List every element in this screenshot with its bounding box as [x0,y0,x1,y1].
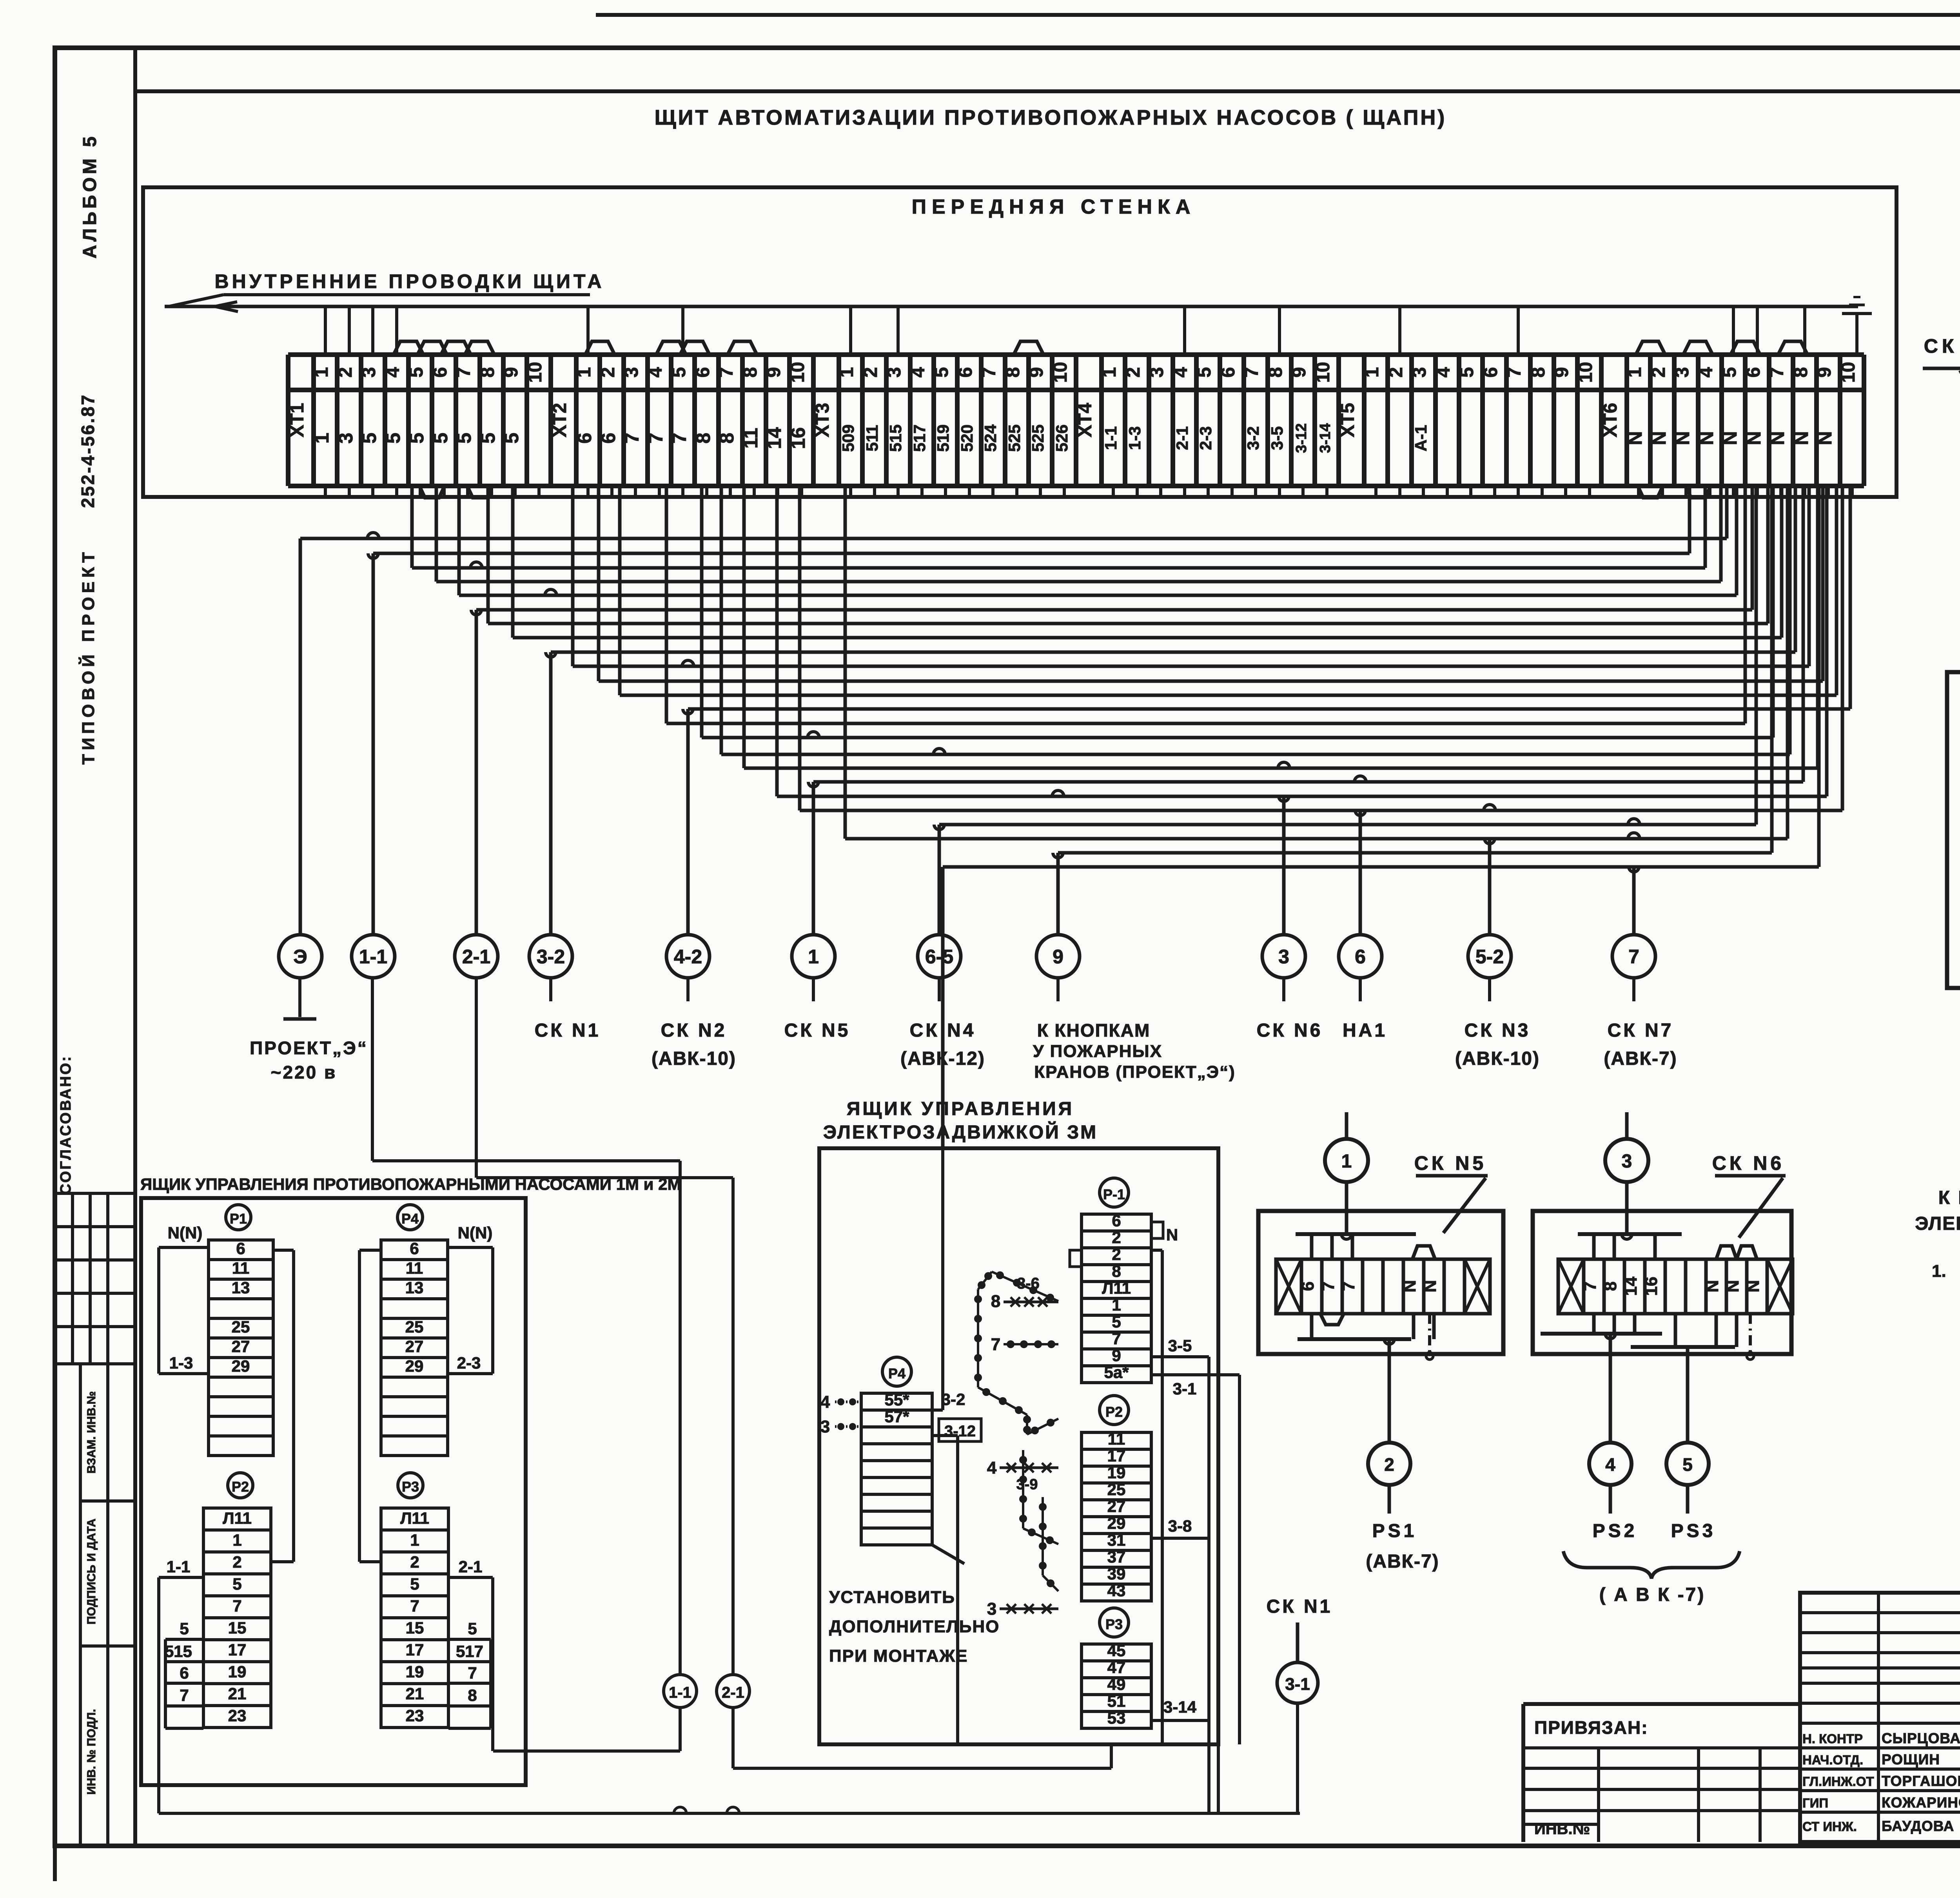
svg-text:17: 17 [228,1641,247,1659]
svg-text:5: 5 [931,367,952,378]
svg-text:ХТ3: ХТ3 [812,403,833,437]
svg-text:4-2: 4-2 [674,946,702,968]
svg-text:3-5: 3-5 [1168,1336,1192,1355]
svg-text:3: 3 [1622,1151,1632,1172]
svg-text:2: 2 [1648,367,1669,378]
svg-text:1: 1 [1112,1296,1121,1314]
svg-text:( А В К -7): ( А В К -7) [1599,1584,1706,1605]
svg-text:N: N [1766,431,1788,445]
svg-text:3-2: 3-2 [942,1390,965,1409]
svg-text:6: 6 [1355,946,1366,968]
svg-text:СК N2: СК N2 [661,1020,727,1041]
svg-text:ПОДПИСЬ И ДАТА: ПОДПИСЬ И ДАТА [85,1519,98,1624]
svg-text:1: 1 [1099,367,1120,378]
svg-text:2: 2 [410,1553,419,1571]
svg-text:ЭЛЕКТРОЗАДВИЖКОЙ ЗМ: ЭЛЕКТРОЗАДВИЖКОЙ ЗМ [823,1121,1098,1143]
svg-text:15: 15 [406,1619,424,1637]
svg-text:7: 7 [1581,1282,1600,1291]
svg-text:АЛЬБОМ 5: АЛЬБОМ 5 [80,133,100,258]
svg-text:10: 10 [788,362,808,383]
svg-text:3: 3 [987,1599,996,1619]
svg-text:ХТ6: ХТ6 [1600,403,1621,437]
svg-text:7: 7 [645,433,667,444]
svg-text:3: 3 [335,433,357,444]
svg-text:4: 4 [1696,367,1717,377]
svg-text:(АВК-12): (АВК-12) [900,1048,985,1069]
svg-text:СК N6: СК N6 [1712,1152,1784,1174]
svg-text:10: 10 [1313,362,1334,383]
svg-text:4: 4 [383,367,403,377]
svg-text:7: 7 [1112,1329,1121,1348]
svg-text:7: 7 [1339,1282,1358,1291]
svg-text:7: 7 [1767,367,1788,378]
svg-text:14: 14 [763,427,785,449]
svg-text:3-2: 3-2 [1244,426,1262,450]
svg-text:3: 3 [359,367,379,378]
svg-text:N: N [1671,431,1693,445]
svg-text:5: 5 [406,433,428,444]
svg-text:517: 517 [456,1642,483,1661]
svg-text:7: 7 [454,367,474,378]
svg-text:4: 4 [987,1458,997,1477]
svg-text:ВНУТРЕННИЕ ПРОВОДКИ ЩИТА: ВНУТРЕННИЕ ПРОВОДКИ ЩИТА [215,270,605,292]
svg-text:520: 520 [958,424,976,452]
svg-text:1-3: 1-3 [1125,426,1144,450]
svg-text:515: 515 [165,1642,192,1661]
svg-text:17: 17 [406,1641,424,1659]
svg-text:3: 3 [1409,367,1430,378]
svg-text:37: 37 [1107,1548,1126,1566]
svg-text:N: N [1421,1280,1440,1293]
svg-text:~220 в: ~220 в [271,1062,337,1082]
svg-text:8: 8 [1112,1262,1121,1280]
svg-text:Р1: Р1 [230,1211,247,1227]
svg-text:7: 7 [468,1664,477,1682]
svg-text:9: 9 [501,367,522,378]
svg-text:6: 6 [693,367,713,378]
svg-text:(АВК-10): (АВК-10) [1455,1048,1540,1069]
svg-text:5: 5 [1719,367,1740,378]
svg-text:N: N [1744,1280,1763,1293]
svg-text:ЯЩИК УПРАВЛЕНИЯ: ЯЩИК УПРАВЛЕНИЯ [847,1099,1074,1119]
svg-text:55*: 55* [884,1390,909,1409]
svg-text:8: 8 [716,433,738,444]
svg-text:10: 10 [1838,362,1859,383]
svg-text:8: 8 [1003,367,1024,378]
svg-text:3: 3 [1147,367,1167,378]
svg-text:ХТ2: ХТ2 [550,403,570,437]
svg-text:6: 6 [1743,367,1764,378]
svg-text:10: 10 [525,362,546,383]
svg-text:5: 5 [382,433,404,444]
svg-text:3-8: 3-8 [1168,1517,1192,1535]
svg-text:8: 8 [468,1686,477,1704]
svg-text:8: 8 [1601,1282,1620,1291]
svg-text:6: 6 [430,367,451,378]
svg-text:526: 526 [1053,424,1071,452]
svg-text:СОГЛАСОВАНО:: СОГЛАСОВАНО: [58,1055,74,1195]
svg-text:9: 9 [1053,946,1063,968]
svg-text:13: 13 [405,1278,424,1297]
svg-text:3: 3 [884,367,905,378]
svg-text:519: 519 [934,424,952,452]
svg-text:3-12: 3-12 [1293,423,1310,453]
svg-text:ДОПОЛНИТЕЛЬНО: ДОПОЛНИТЕЛЬНО [829,1617,1000,1636]
svg-text:N: N [1166,1225,1178,1244]
svg-text:3-6: 3-6 [1017,1275,1040,1292]
svg-text:25: 25 [232,1318,250,1336]
svg-text:ИНВ. № ПОДЛ.: ИНВ. № ПОДЛ. [85,1709,98,1795]
svg-text:7: 7 [991,1335,1000,1354]
svg-text:СК N6: СК N6 [1257,1020,1323,1041]
svg-text:51: 51 [1107,1692,1126,1710]
svg-text:10: 10 [1575,362,1596,383]
svg-text:1: 1 [232,1531,241,1549]
svg-text:УСТАНОВИТЬ: УСТАНОВИТЬ [829,1588,955,1607]
svg-text:ЩИТ АВТОМАТИЗАЦИИ ПРОТИВОП: ЩИТ АВТОМАТИЗАЦИИ ПРОТИВОПОЖАРНЫХ НАСОСО… [655,106,1447,129]
svg-text:Р3: Р3 [1105,1616,1123,1632]
svg-text:6: 6 [955,367,976,378]
svg-text:СК N1: СК N1 [535,1020,601,1041]
svg-text:9: 9 [1026,367,1047,378]
svg-text:ВЗАМ. ИНВ.№: ВЗАМ. ИНВ.№ [85,1391,98,1474]
svg-text:5: 5 [453,433,475,444]
svg-text:3: 3 [1278,946,1289,968]
svg-text:2-3: 2-3 [1196,426,1215,450]
svg-text:2: 2 [1384,1454,1394,1475]
svg-text:39: 39 [1107,1564,1126,1583]
svg-text:Р2: Р2 [232,1479,249,1495]
svg-text:4: 4 [1433,367,1454,377]
svg-text:3: 3 [820,1417,830,1436]
svg-text:4: 4 [645,367,666,377]
svg-text:16: 16 [787,427,809,449]
svg-text:19: 19 [406,1662,424,1681]
svg-text:К КНОПКАМ: К КНОПКАМ [1037,1020,1151,1041]
svg-text:5: 5 [1194,367,1215,378]
svg-text:ЭЛЕКТРОЗАДВИЖКИ: ЭЛЕКТРОЗАДВИЖКИ [1915,1213,1960,1234]
svg-text:2-1: 2-1 [462,946,490,968]
svg-text:1: 1 [1362,367,1383,378]
svg-text:5: 5 [180,1619,189,1638]
svg-text:3: 3 [1672,367,1693,378]
svg-text:N: N [1743,431,1765,445]
svg-text:БАУДОВА: БАУДОВА [1882,1818,1954,1834]
svg-text:6: 6 [1481,367,1501,378]
svg-text:СК N4: СК N4 [910,1020,976,1041]
svg-text:9: 9 [1552,367,1572,378]
svg-text:15: 15 [228,1619,247,1637]
svg-text:8: 8 [692,433,714,444]
svg-text:ТИПОВОЙ ПРОЕКТ: ТИПОВОЙ ПРОЕКТ [78,548,98,765]
svg-text:ТОРГАШОВ: ТОРГАШОВ [1882,1773,1960,1789]
svg-text:3-14: 3-14 [1317,423,1334,453]
svg-text:НА1: НА1 [1343,1020,1387,1041]
svg-text:Л11: Л11 [1102,1279,1131,1297]
svg-text:1: 1 [808,946,819,968]
svg-text:4: 4 [820,1392,830,1412]
svg-text:53: 53 [1107,1709,1126,1727]
svg-text:1-3: 1-3 [169,1354,193,1372]
svg-text:Н. КОНТР: Н. КОНТР [1802,1731,1863,1746]
svg-text:Р-1: Р-1 [1103,1186,1125,1202]
svg-text:9: 9 [1814,367,1835,378]
svg-text:N(N): N(N) [458,1224,493,1242]
svg-text:Р4: Р4 [401,1211,419,1227]
svg-text:2-1: 2-1 [459,1557,483,1576]
svg-text:509: 509 [839,424,857,452]
svg-text:Р4: Р4 [888,1365,906,1381]
svg-text:1.: 1. [1932,1262,1946,1281]
svg-text:2-3: 2-3 [457,1354,481,1372]
svg-text:СК N1: СК N1 [1924,335,1960,357]
svg-text:Л11: Л11 [223,1509,252,1527]
svg-text:2: 2 [598,367,619,378]
svg-text:2: 2 [860,367,881,378]
svg-text:525: 525 [1029,424,1047,452]
svg-text:25: 25 [405,1318,424,1336]
svg-text:ХТ1: ХТ1 [287,403,308,437]
svg-text:47: 47 [1107,1658,1126,1677]
svg-text:ПРИ МОНТАЖЕ: ПРИ МОНТАЖЕ [829,1646,968,1666]
svg-text:1-1: 1-1 [669,1684,691,1701]
svg-text:Э: Э [293,946,307,968]
svg-text:(АВК-10): (АВК-10) [652,1048,736,1069]
svg-text:НАЧ.ОТД.: НАЧ.ОТД. [1802,1753,1863,1767]
svg-text:3-14: 3-14 [1163,1698,1197,1716]
svg-text:У ПОЖАРНЫХ: У ПОЖАРНЫХ [1033,1042,1162,1061]
svg-text:8: 8 [1528,367,1549,378]
svg-text:N: N [1624,431,1646,445]
svg-text:N: N [1723,1280,1742,1293]
svg-text:СК N7: СК N7 [1608,1020,1674,1041]
svg-text:7: 7 [1628,946,1639,968]
svg-text:РОЩИН: РОЩИН [1882,1751,1940,1767]
svg-text:N: N [1719,431,1741,445]
svg-text:1: 1 [1624,367,1645,378]
svg-text:Р2: Р2 [1105,1404,1123,1420]
svg-text:5-2: 5-2 [1475,946,1504,968]
svg-text:8: 8 [991,1292,1000,1311]
svg-text:5: 5 [669,367,690,378]
svg-text:N: N [1400,1280,1419,1293]
svg-text:3-1: 3-1 [1285,1675,1310,1694]
svg-text:29: 29 [405,1357,424,1375]
svg-text:9: 9 [764,367,784,378]
svg-text:6: 6 [410,1239,419,1258]
svg-text:N: N [1695,431,1717,445]
svg-text:ПРОЕКТ„Э“: ПРОЕКТ„Э“ [250,1038,368,1058]
svg-text:57*: 57* [884,1407,909,1426]
svg-text:2: 2 [232,1553,241,1571]
svg-text:КРАНОВ (ПРОЕКТ„Э“): КРАНОВ (ПРОЕКТ„Э“) [1034,1062,1236,1082]
svg-text:7: 7 [668,433,690,444]
svg-text:13: 13 [232,1278,250,1297]
svg-text:1: 1 [311,433,333,444]
svg-text:7: 7 [716,367,737,378]
svg-text:11: 11 [1108,1430,1125,1448]
svg-text:9: 9 [1289,367,1310,378]
svg-text:N: N [1790,431,1812,445]
svg-text:3-12: 3-12 [944,1423,976,1440]
svg-text:511: 511 [863,425,881,451]
svg-text:515: 515 [886,424,905,452]
svg-text:21: 21 [406,1684,424,1703]
svg-text:8: 8 [477,367,498,378]
svg-text:3: 3 [621,367,642,378]
svg-text:8: 8 [1265,367,1286,378]
svg-text:23: 23 [406,1706,424,1725]
svg-text:11: 11 [740,428,762,449]
svg-text:N: N [1648,431,1670,445]
svg-text:1: 1 [410,1531,419,1549]
svg-text:5: 5 [1112,1312,1121,1331]
svg-text:27: 27 [405,1337,424,1356]
svg-text:6: 6 [180,1664,189,1682]
svg-text:517: 517 [910,424,929,452]
svg-text:4: 4 [1171,367,1191,377]
svg-text:1-1: 1-1 [167,1557,191,1576]
svg-text:ГИП: ГИП [1802,1796,1828,1810]
svg-text:7: 7 [1504,367,1525,378]
svg-text:17: 17 [1107,1447,1126,1465]
svg-text:45: 45 [1107,1641,1126,1660]
svg-text:СТ ИНЖ.: СТ ИНЖ. [1802,1819,1857,1834]
svg-text:СК N5: СК N5 [784,1020,851,1041]
svg-text:31: 31 [1107,1531,1126,1549]
svg-text:Л11: Л11 [400,1509,429,1527]
svg-text:2: 2 [1112,1245,1121,1264]
svg-text:N(N): N(N) [168,1224,203,1242]
svg-text:5: 5 [406,367,427,378]
svg-text:ЯЩИК УПРАВЛЕНИЯ ПРОТИВОПОЖАРНЫ: ЯЩИК УПРАВЛЕНИЯ ПРОТИВОПОЖАРНЫМИ НАСОСАМ… [140,1175,681,1193]
svg-text:3-1: 3-1 [1173,1380,1197,1398]
svg-text:29: 29 [232,1357,250,1375]
svg-text:29: 29 [1107,1514,1126,1532]
svg-text:5: 5 [232,1575,241,1593]
svg-text:ПРИВЯЗАН:: ПРИВЯЗАН: [1534,1717,1648,1738]
svg-text:СК N1: СК N1 [1267,1596,1333,1617]
svg-text:6: 6 [1112,1211,1121,1230]
svg-text:5: 5 [1457,367,1477,378]
svg-text:(АВК-7): (АВК-7) [1366,1551,1439,1572]
svg-text:524: 524 [981,424,1000,452]
svg-text:5: 5 [410,1575,419,1593]
svg-text:1-1: 1-1 [1102,426,1120,450]
svg-text:СК N3: СК N3 [1465,1020,1531,1041]
svg-text:5: 5 [358,433,380,444]
svg-text:РS2: РS2 [1593,1521,1638,1541]
svg-text:ХТ5: ХТ5 [1338,403,1358,437]
svg-text:21: 21 [228,1684,247,1703]
svg-text:8: 8 [1791,367,1811,378]
svg-text:1-1: 1-1 [359,946,387,968]
svg-text:2-1: 2-1 [1173,426,1191,450]
svg-text:2: 2 [1123,367,1144,378]
svg-text:А-1: А-1 [1412,425,1430,451]
svg-text:3-9: 3-9 [1016,1476,1038,1493]
svg-text:N: N [1814,431,1836,445]
svg-text:4: 4 [1605,1454,1615,1475]
svg-text:6-5: 6-5 [925,946,953,968]
svg-text:7: 7 [621,433,643,444]
svg-text:1: 1 [311,367,332,378]
svg-text:525: 525 [1005,424,1024,452]
svg-text:К ПРИВОДУ: К ПРИВОДУ [1938,1187,1960,1208]
svg-text:3-5: 3-5 [1268,426,1286,450]
svg-text:ХТ4: ХТ4 [1075,403,1096,437]
svg-text:16: 16 [1642,1277,1661,1296]
svg-text:7: 7 [1319,1282,1338,1291]
svg-text:23: 23 [228,1706,247,1725]
svg-text:11: 11 [406,1259,423,1277]
svg-text:КОЖАРИНОВА: КОЖАРИНОВА [1882,1795,1960,1811]
svg-text:27: 27 [232,1337,250,1356]
svg-text:10: 10 [1050,362,1071,383]
svg-text:6: 6 [1218,367,1239,378]
svg-text:252-4-56.87: 252-4-56.87 [78,393,98,508]
svg-text:4: 4 [908,367,929,377]
svg-text:7: 7 [180,1686,189,1704]
svg-text:7: 7 [979,367,1000,378]
svg-text:Р3: Р3 [402,1479,419,1495]
svg-text:7: 7 [232,1597,241,1615]
svg-text:5а*: 5а* [1104,1363,1129,1381]
svg-text:N: N [1703,1280,1722,1293]
svg-text:25: 25 [1107,1480,1126,1499]
svg-text:1: 1 [1341,1151,1352,1172]
svg-text:1: 1 [574,367,595,378]
svg-text:СК N5: СК N5 [1414,1152,1486,1174]
svg-text:27: 27 [1107,1497,1126,1515]
svg-text:ГЛ.ИНЖ.ОТ: ГЛ.ИНЖ.ОТ [1802,1774,1874,1789]
svg-text:2: 2 [1386,367,1406,378]
svg-text:6: 6 [573,433,595,444]
svg-text:6: 6 [597,433,619,444]
svg-text:(АВК-7): (АВК-7) [1604,1048,1677,1069]
svg-text:43: 43 [1107,1581,1126,1600]
svg-text:5: 5 [468,1619,477,1638]
svg-text:8: 8 [740,367,761,378]
svg-text:9: 9 [1112,1346,1121,1365]
svg-text:7: 7 [1241,367,1262,378]
svg-text:49: 49 [1107,1675,1126,1693]
svg-text:СЫРЦОВА: СЫРЦОВА [1882,1730,1960,1746]
svg-text:ПЕРЕДНЯЯ СТЕНКА: ПЕРЕДНЯЯ СТЕНКА [912,196,1196,218]
svg-text:7: 7 [410,1597,419,1615]
svg-text:19: 19 [228,1662,247,1681]
svg-text:5: 5 [1682,1454,1693,1475]
svg-text:11: 11 [232,1259,249,1277]
svg-text:1: 1 [837,367,857,378]
svg-text:19: 19 [1107,1463,1126,1482]
svg-text:6: 6 [1298,1282,1318,1291]
svg-text:РS1: РS1 [1372,1521,1417,1541]
svg-text:2: 2 [335,367,356,378]
svg-text:6: 6 [236,1239,245,1258]
svg-text:5: 5 [477,433,499,444]
svg-text:РS3: РS3 [1671,1521,1716,1541]
svg-text:14: 14 [1621,1276,1641,1296]
svg-text:5: 5 [501,433,523,444]
svg-text:2: 2 [1112,1228,1121,1247]
svg-text:5: 5 [430,433,452,444]
svg-text:2-1: 2-1 [722,1684,744,1701]
svg-text:3-2: 3-2 [537,946,565,968]
